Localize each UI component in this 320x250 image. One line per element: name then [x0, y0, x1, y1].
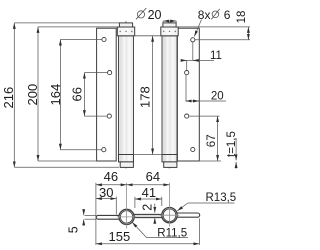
left plate hole top — [102, 37, 106, 41]
svg-text:R13,5: R13,5 — [206, 192, 237, 204]
svg-text:200: 200 — [25, 84, 40, 106]
svg-text:67: 67 — [206, 134, 218, 147]
dimension 2 — [154, 204, 156, 223]
dimension 164 — [60, 40, 101, 150]
left barrel bottom collar — [119, 155, 134, 162]
left plate hole lower-middle — [107, 114, 111, 118]
svg-text:R11,5: R11,5 — [157, 227, 187, 239]
right barrel bottom collar — [162, 155, 177, 162]
right leaf plate — [177, 28, 199, 161]
right plate hole lower-middle — [185, 114, 189, 118]
dia 20 dimension — [163, 21, 176, 23]
svg-text:11: 11 — [210, 50, 222, 62]
dimension 178 — [152, 36, 154, 155]
leader R13,5 — [177, 203, 234, 211]
right barrel top pin — [163, 23, 176, 27]
dimension t=1,5 — [235, 138, 237, 169]
svg-text:46: 46 — [104, 169, 118, 184]
dimension 200 — [38, 27, 117, 161]
left collar rivets — [119, 31, 121, 33]
dimension 20 right — [186, 75, 226, 102]
plan view left leaf — [96, 215, 120, 219]
left plate hole upper-middle — [108, 71, 112, 75]
svg-text:30: 30 — [99, 185, 113, 200]
svg-text:20: 20 — [148, 8, 162, 22]
svg-text:8x: 8x — [198, 8, 211, 22]
left barrel centerline — [125, 21, 127, 169]
plan view left knuckle inner circle — [120, 211, 132, 223]
left leaf plate — [97, 28, 117, 161]
svg-text:t=1,5: t=1,5 — [226, 131, 238, 157]
right plate hole bottom — [191, 147, 195, 151]
svg-text:64: 64 — [146, 169, 160, 184]
right plate hole top — [191, 38, 195, 42]
dimension 216 — [14, 23, 119, 167]
dimension 11 — [181, 42, 214, 70]
svg-text:41: 41 — [142, 185, 156, 200]
svg-text:155: 155 — [109, 229, 131, 244]
plan view right knuckle outer circle — [162, 208, 177, 223]
svg-text:5: 5 — [66, 226, 80, 233]
leader R11,5 — [132, 222, 188, 237]
dimension 66 — [84, 73, 107, 117]
plan right circle centerlines — [169, 183, 171, 227]
right barrel centerline — [169, 21, 171, 169]
right barrel top collar — [161, 27, 178, 36]
tube end lines across gap — [134, 35, 163, 37]
left barrel bottom pin — [120, 162, 133, 168]
svg-text:6: 6 — [224, 8, 231, 22]
plan view web — [134, 214, 162, 217]
right plate hole upper-middle — [185, 71, 189, 75]
svg-text:18: 18 — [236, 11, 248, 24]
plan left circle centerlines — [126, 183, 128, 229]
right barrel tube — [162, 36, 177, 155]
plan view right leaf — [177, 213, 200, 217]
dimension 18 — [178, 27, 250, 40]
svg-text:164: 164 — [48, 84, 63, 106]
svg-text:2: 2 — [141, 204, 155, 211]
right barrel bottom pin — [164, 162, 177, 168]
svg-text:20: 20 — [211, 90, 224, 102]
dimension 67 — [189, 116, 221, 161]
dimension 155 — [96, 219, 199, 246]
svg-text:66: 66 — [70, 87, 85, 101]
right collar rivets — [163, 31, 165, 33]
svg-text:216: 216 — [1, 87, 16, 109]
left barrel tube — [119, 36, 134, 155]
dimension 41 — [135, 197, 162, 208]
plan view left knuckle outer circle — [119, 209, 134, 224]
left barrel top collar — [117, 27, 134, 36]
svg-text:178: 178 — [138, 86, 153, 108]
label dia 20 — [137, 11, 144, 18]
dimension 5 — [84, 209, 97, 226]
left plate hole bottom — [102, 148, 106, 152]
plan view right knuckle inner circle — [163, 209, 176, 222]
left barrel top pin — [119, 23, 132, 27]
dimension 46 and 64 — [96, 183, 170, 245]
dimension 30 — [96, 197, 116, 215]
